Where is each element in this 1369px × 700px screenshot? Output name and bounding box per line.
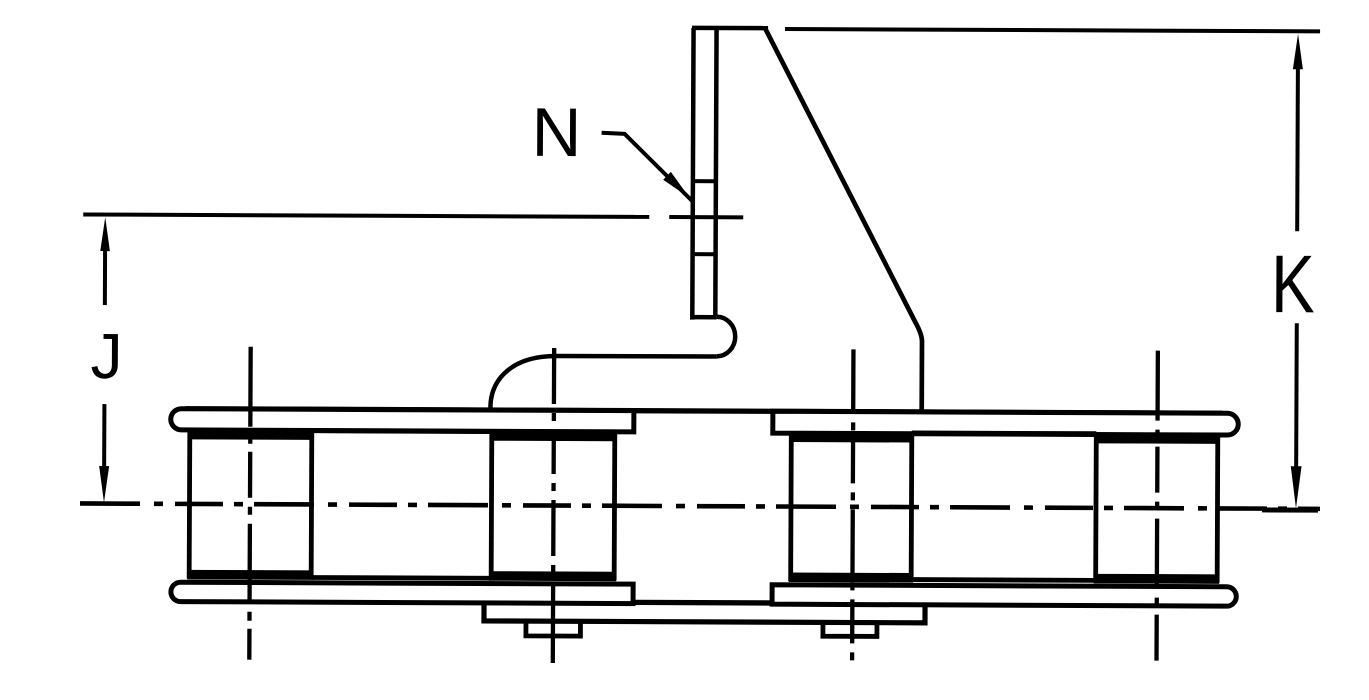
svg-text:K: K bbox=[1271, 238, 1315, 330]
svg-text:N: N bbox=[531, 94, 581, 171]
svg-text:J: J bbox=[90, 320, 122, 392]
